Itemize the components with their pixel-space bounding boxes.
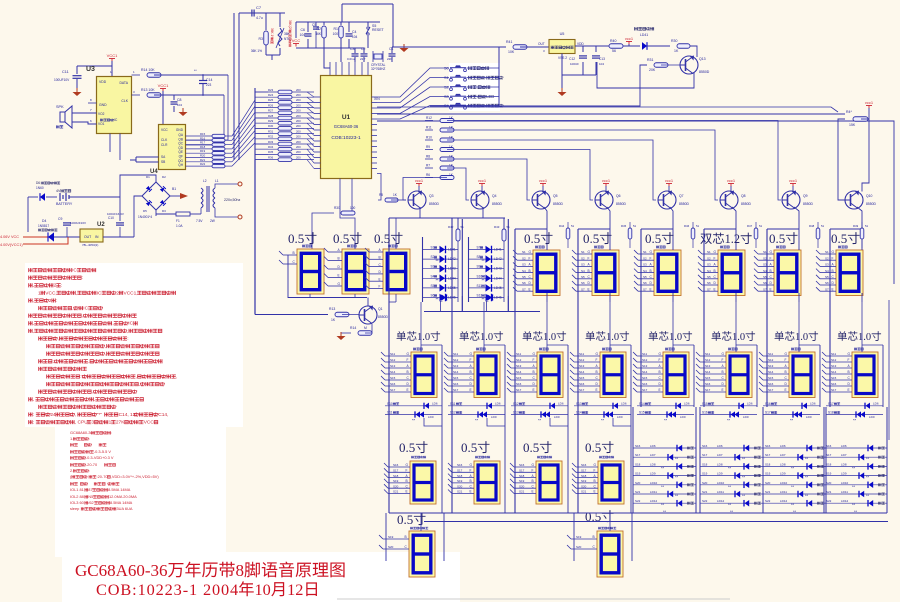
svg-text:S7: S7 (763, 287, 767, 291)
capacitor C9 (63, 222, 71, 224)
display DT8 1.0in (854, 348, 857, 351)
svg-text:8550D: 8550D (741, 202, 752, 206)
svg-text:IOL3 60: IOL3 60 (70, 500, 85, 505)
display DS4 0.5in (535, 246, 538, 249)
svg-text:LD10: LD10 (650, 481, 658, 485)
svg-text:S19: S19 (388, 535, 394, 539)
capacitor C4 (346, 33, 353, 35)
resistor R5 Q3 (385, 198, 398, 202)
svg-text:S17: S17 (828, 402, 834, 406)
svg-text:F: F (714, 256, 716, 260)
svg-text:0.5: 0.5 (333, 231, 349, 246)
svg-text:32*768HZ: 32*768HZ (371, 67, 385, 71)
svg-text::: : (89, 436, 90, 441)
svg-text:S3: S3 (763, 263, 767, 267)
svg-text:1: 1 (109, 420, 112, 426)
svg-text:S16: S16 (519, 463, 525, 467)
svg-text:SB: SB (161, 160, 165, 164)
svg-text:Q5: Q5 (553, 194, 558, 198)
svg-text:1.0: 1.0 (795, 332, 808, 343)
svg-text:S3: S3 (707, 263, 711, 267)
svg-text:C11: C11 (62, 70, 69, 74)
svg-text:B: B (785, 370, 787, 374)
svg-text:100: 100 (350, 206, 356, 210)
svg-text:LD41: LD41 (640, 33, 648, 37)
svg-text:0.5: 0.5 (461, 440, 477, 455)
svg-text:S21: S21 (519, 490, 525, 494)
display DS8 0.5in (776, 246, 779, 249)
svg-text:1.0: 1.0 (543, 332, 556, 343)
svg-text:8550D: 8550D (553, 202, 564, 206)
svg-text:100UF10V: 100UF10V (54, 78, 70, 82)
LED LD12 stack4 (824, 502, 887, 504)
svg-text:VCC: VCC (144, 420, 155, 426)
display DU1 0.5in row3 (411, 456, 414, 459)
svg-text:**: ** (866, 475, 870, 480)
svg-text:E: E (785, 388, 787, 392)
svg-text:0.5: 0.5 (831, 231, 847, 246)
svg-text:S2: S2 (444, 86, 449, 90)
resistor R43 (502, 229, 506, 241)
svg-text:S4: S4 (431, 274, 435, 278)
resistor R41 (513, 45, 527, 50)
svg-text:20K: 20K (649, 68, 656, 72)
svg-text:S17: S17 (581, 469, 587, 473)
svg-text:**: ** (791, 484, 795, 489)
arrow out bridge (180, 193, 188, 199)
svg-text:R27: R27 (268, 109, 274, 113)
stubs DS7 (702, 253, 718, 255)
svg-text:S17: S17 (642, 388, 648, 392)
svg-text:S18: S18 (828, 411, 834, 415)
display DU2 0.5in row3 (475, 456, 478, 459)
svg-text:S15: S15 (705, 376, 711, 380)
svg-text:78L-4053(2): 78L-4053(2) (82, 243, 98, 247)
svg-text:R12: R12 (426, 116, 432, 120)
svg-text:S13: S13 (390, 364, 396, 368)
svg-text:LD44: LD44 (494, 276, 502, 280)
svg-text:D4: D4 (42, 219, 46, 223)
svg-text:S6: S6 (581, 281, 585, 285)
svg-text:LD0: LD0 (428, 415, 434, 419)
svg-text:LD6: LD6 (780, 444, 786, 448)
svg-text:8550D: 8550D (492, 202, 503, 206)
svg-text:LD0: LD0 (743, 415, 749, 419)
svg-text:**: ** (805, 456, 809, 461)
svg-text:IC: IC (97, 290, 102, 296)
resistor R30 (677, 44, 690, 49)
svg-text:**: ** (486, 299, 490, 304)
wire long to R4* (377, 113, 845, 115)
svg-text:LD11: LD11 (717, 490, 724, 494)
svg-text:S14: S14 (576, 411, 582, 415)
svg-text:**: ** (482, 277, 486, 282)
svg-text:S11: S11 (387, 411, 393, 415)
svg-text:LD0: LD0 (491, 415, 497, 419)
svg-text:200: 200 (296, 109, 301, 113)
svg-text:E: E (594, 490, 596, 494)
svg-text:U1: U1 (342, 114, 351, 121)
svg-text:C1: C1 (389, 47, 394, 51)
svg-text:sleep: sleep (70, 506, 79, 511)
svg-text:S13: S13 (831, 364, 837, 368)
svg-text:24: 24 (50, 412, 56, 418)
svg-text:,: , (76, 291, 77, 296)
svg-text:CLK: CLK (121, 99, 128, 103)
svg-text:S0: S0 (444, 67, 449, 71)
row3 LED stack 3 frame (762, 407, 764, 513)
resistor R2 (322, 26, 327, 38)
svg-text:1.2: 1.2 (725, 232, 740, 246)
svg-text:S21: S21 (702, 490, 708, 494)
svg-text:B: B (714, 269, 716, 273)
svg-text:S15: S15 (702, 402, 708, 406)
svg-text:S6: S6 (522, 281, 526, 285)
svg-text:1.0: 1.0 (606, 332, 619, 343)
svg-text:S5: S5 (707, 275, 711, 279)
LED LD6 stack3 (763, 447, 826, 449)
svg-text:S9: S9 (477, 265, 481, 269)
capacitor C1 (389, 53, 396, 55)
svg-text:7.5V: 7.5V (196, 219, 203, 223)
svg-text:, CPU: , CPU (75, 420, 88, 426)
svg-text:E: E (588, 287, 590, 291)
svg-text:**: ** (742, 493, 746, 498)
svg-text:R43: R43 (494, 225, 500, 229)
svg-text:S16: S16 (581, 463, 587, 467)
svg-text:LD0: LD0 (869, 415, 875, 419)
svg-text:S12: S12 (768, 358, 774, 362)
row1 right feeds (544, 207, 547, 250)
svg-text:4V: 4V (56, 189, 61, 193)
wire U5 VDD rail (575, 45, 629, 47)
stubs DT5 (637, 355, 663, 357)
svg-text:B: B (532, 479, 534, 483)
row3 LED stack 1 frame (632, 407, 634, 513)
svg-text:B: B (470, 370, 472, 374)
svg-text:R13: R13 (329, 307, 335, 311)
LED LD8 stack2 (700, 465, 763, 467)
wire fan bank2 (254, 88, 256, 160)
svg-text:U5: U5 (560, 32, 565, 36)
svg-text:C10: C10 (108, 216, 114, 220)
svg-text:0.5: 0.5 (524, 231, 540, 246)
svg-text::: : (61, 284, 62, 289)
svg-text:B: B (405, 535, 407, 539)
svg-text:51: 51 (759, 224, 763, 228)
svg-text:**: ** (791, 502, 795, 507)
bridge rectifier B1 (142, 182, 170, 210)
stubs DT8 (826, 355, 852, 357)
svg-text:1.0: 1.0 (417, 332, 430, 343)
svg-text:S17: S17 (702, 453, 708, 457)
svg-text:S19: S19 (635, 472, 641, 476)
svg-text:S7: S7 (643, 287, 647, 291)
svg-text:LD6: LD6 (747, 401, 753, 405)
svg-text:,: , (105, 352, 106, 357)
svg-text:F: F (406, 469, 408, 473)
svg-text:R31: R31 (268, 129, 274, 133)
display DS1 0.5in (302, 245, 305, 248)
svg-text:C14,: C14, (158, 412, 168, 418)
svg-text:S11: S11 (453, 352, 458, 356)
svg-text:vcc1: vcc1 (602, 178, 611, 183)
svg-text:S5: S5 (581, 275, 585, 279)
stubs DV2 (571, 538, 597, 540)
transistor Q4 (471, 191, 489, 209)
battery BT1 (59, 193, 61, 201)
svg-text:vcc1: vcc1 (415, 178, 424, 183)
transistor Q8 (720, 191, 738, 209)
svg-text:S19: S19 (826, 472, 832, 476)
svg-text:**: ** (436, 277, 440, 282)
transistor Q7 (658, 191, 676, 209)
wire key bus (467, 67, 500, 69)
svg-text:U4: U4 (150, 169, 158, 175)
svg-text:LD12: LD12 (841, 499, 849, 503)
svg-text:S7: S7 (522, 287, 526, 291)
svg-text:3: 3 (92, 420, 95, 426)
svg-text:0.5: 0.5 (583, 231, 599, 246)
svg-text:F: F (659, 358, 661, 362)
wire U1 top pins (329, 62, 331, 75)
svg-text:**: ** (436, 258, 440, 263)
svg-text:S7: S7 (707, 287, 711, 291)
svg-text:vcc1: vcc1 (727, 178, 736, 183)
row4 feeds (420, 513, 422, 531)
svg-text:0.5: 0.5 (399, 440, 415, 455)
svg-text:R45: R45 (621, 224, 627, 228)
svg-text:,: , (112, 322, 113, 327)
LED LD10 stack1 (633, 484, 696, 486)
U1 right pins (372, 96, 378, 98)
svg-text:"*": "*" (97, 412, 103, 418)
stubs DU1 (388, 466, 410, 468)
svg-text:**: ** (852, 465, 856, 470)
svg-text:S21: S21 (765, 490, 771, 494)
bus horizontals (389, 512, 887, 514)
svg-text:S16: S16 (457, 463, 463, 467)
svg-text:S7: S7 (477, 246, 481, 250)
svg-text:100UF: 100UF (570, 62, 579, 66)
svg-text:36K: 36K (284, 32, 291, 36)
svg-text:1K: 1K (674, 49, 679, 53)
LED D41 IR indicator (634, 27, 638, 30)
svg-text:S18: S18 (702, 462, 708, 466)
svg-text:S13: S13 (642, 364, 648, 368)
svg-text:IC: IC (114, 118, 118, 122)
svg-text:L1: L1 (215, 179, 219, 183)
svg-text:R48: R48 (809, 224, 815, 228)
svg-text:VSS 2: VSS 2 (558, 56, 567, 60)
svg-text:S22: S22 (635, 499, 641, 503)
svg-text:,: , (127, 329, 128, 334)
wire DATA CLK to U4 (159, 75, 229, 140)
svg-text:C6: C6 (301, 28, 306, 32)
svg-text:vcc1: vcc1 (478, 178, 487, 183)
crystal Y1 (374, 54, 382, 59)
svg-text:S15: S15 (516, 376, 522, 380)
resistor column R5-R12 (425, 120, 433, 122)
svg-text:F: F (596, 358, 598, 362)
svg-text:S20: S20 (581, 484, 587, 488)
speaker wires (72, 112, 97, 114)
svg-text:0.5: 0.5 (769, 231, 785, 246)
svg-text:C7: C7 (256, 5, 262, 10)
svg-text:2W: 2W (210, 219, 215, 223)
svg-text:51: 51 (821, 224, 825, 228)
stubs DT3 (511, 355, 537, 357)
svg-text:Q7: Q7 (679, 194, 684, 198)
resistor R3 (264, 31, 269, 45)
resistor R14b (358, 331, 372, 336)
svg-text:27K: 27K (116, 420, 125, 426)
svg-text:,: , (176, 375, 177, 380)
svg-text:**: ** (853, 418, 857, 423)
display DT4 1.0in (602, 348, 605, 351)
svg-text:**: ** (852, 502, 856, 507)
ground top (403, 44, 405, 48)
wire R column to transistor bases (447, 121, 781, 201)
svg-text:LD46: LD46 (494, 296, 502, 300)
svg-text:M: M (364, 326, 367, 330)
svg-text:C4: C4 (352, 30, 357, 34)
LED LD6 stack4 (824, 447, 887, 449)
white spec panel (55, 427, 226, 557)
svg-text:IOL1 81: IOL1 81 (70, 487, 84, 492)
svg-text:S22: S22 (702, 499, 708, 503)
label R3 vertical (270, 28, 274, 44)
svg-text:,: , (33, 329, 34, 334)
svg-text:S14: S14 (705, 370, 711, 374)
svg-text:S20: S20 (388, 545, 394, 549)
svg-text:R26: R26 (268, 103, 274, 107)
svg-text:S17: S17 (635, 453, 641, 457)
svg-text:**: ** (661, 484, 665, 489)
row2 LED rows (385, 405, 442, 407)
svg-text:vcc1: vcc1 (789, 178, 798, 183)
transistor Q9 (782, 191, 800, 209)
svg-text:E: E (470, 388, 472, 392)
svg-text:S22: S22 (826, 499, 832, 503)
svg-text:IC: IC (83, 306, 88, 312)
svg-text:0.5: 0.5 (645, 231, 661, 246)
stubs DT4 (574, 355, 600, 357)
svg-text:R11: R11 (426, 126, 432, 130)
svg-text:S15: S15 (768, 376, 774, 380)
svg-text::: : (89, 468, 90, 473)
note text block (28, 268, 32, 272)
svg-text:S15: S15 (453, 376, 459, 380)
svg-text:S12: S12 (453, 358, 459, 362)
svg-text:S2: S2 (431, 255, 435, 259)
svg-text:LD6: LD6 (621, 401, 627, 405)
svg-text:IN: IN (95, 235, 99, 239)
resistor R13 CLK (147, 93, 161, 98)
wire right edge long (377, 121, 894, 284)
svg-text:104: 104 (599, 62, 604, 66)
svg-text:S12: S12 (642, 358, 648, 362)
svg-text:S1: S1 (444, 76, 449, 80)
svg-text:S16: S16 (768, 382, 774, 386)
wire Q13 collector (597, 62, 694, 88)
svg-text:LD8: LD8 (841, 462, 847, 466)
svg-text:D5: D5 (143, 209, 147, 213)
svg-text:**: ** (728, 484, 732, 489)
svg-text:R33: R33 (268, 140, 274, 144)
capacitor C8 (171, 101, 178, 103)
svg-text:B: B (593, 535, 595, 539)
wire fan U4 to bank2 (232, 100, 255, 136)
svg-text:1.: 1. (70, 436, 73, 441)
wire row1 group feeds (389, 217, 505, 219)
svg-text:S15: S15 (390, 376, 396, 380)
svg-text:B: B (832, 269, 834, 273)
capacitor C2 (361, 53, 368, 55)
svg-text:**: ** (675, 493, 679, 498)
svg-text:GND: GND (176, 128, 184, 132)
svg-text:F: F (407, 358, 409, 362)
svg-text:S17: S17 (765, 453, 771, 457)
svg-text:1N4001*4: 1N4001*4 (138, 215, 152, 219)
ground U5 (561, 88, 563, 92)
svg-text:S18: S18 (826, 462, 832, 466)
svg-text:S20: S20 (576, 545, 582, 549)
resistor R13b (335, 312, 349, 317)
row1 LED group1 bottom (446, 294, 448, 300)
svg-text:E: E (722, 388, 724, 392)
svg-text:0.5: 0.5 (585, 440, 601, 455)
svg-text:223: 223 (206, 83, 212, 87)
svg-text:S11: S11 (831, 352, 836, 356)
resistor bank RN1 (186, 135, 213, 137)
resistor R1 (339, 26, 344, 38)
svg-text:1K: 1K (331, 318, 336, 322)
svg-text:S13: S13 (768, 364, 774, 368)
row1 LED group1 frame (422, 237, 424, 302)
svg-text:87: 87 (88, 487, 92, 492)
svg-text:100: 100 (333, 32, 339, 36)
svg-text:S6: S6 (431, 294, 435, 298)
svg-text:LD7: LD7 (650, 453, 656, 457)
svg-text::20-70: :20-70 (97, 474, 109, 479)
svg-text:100UF16.4V: 100UF16.4V (107, 212, 124, 216)
svg-text:S16: S16 (826, 444, 832, 448)
display DV1 0.5in row4 (410, 527, 413, 530)
LED LD6 stack1 (633, 447, 696, 449)
svg-text:**: ** (601, 418, 605, 423)
svg-text:S16: S16 (453, 382, 459, 386)
svg-text::: : (127, 337, 128, 342)
svg-text:22P: 22P (360, 57, 365, 61)
svg-text:U3: U3 (86, 66, 95, 73)
row1 LED group2 rows (469, 249, 505, 251)
svg-text:S5: S5 (522, 275, 526, 279)
svg-text:2: 2 (116, 290, 119, 296)
svg-text:S5: S5 (643, 275, 647, 279)
svg-text:200: 200 (296, 88, 301, 92)
svg-text:0.01u: 0.01u (347, 57, 355, 61)
display DU3 0.5in row3 (537, 456, 540, 459)
svg-text:S17: S17 (831, 388, 837, 392)
svg-text:E: E (470, 490, 472, 494)
svg-text:S17: S17 (519, 469, 525, 473)
svg-text:S4: S4 (581, 269, 585, 273)
svg-text:10: 10 (255, 580, 271, 599)
svg-text:200: 200 (296, 129, 301, 133)
svg-text:104: 104 (177, 103, 182, 107)
svg-text:2: 2 (54, 283, 57, 289)
